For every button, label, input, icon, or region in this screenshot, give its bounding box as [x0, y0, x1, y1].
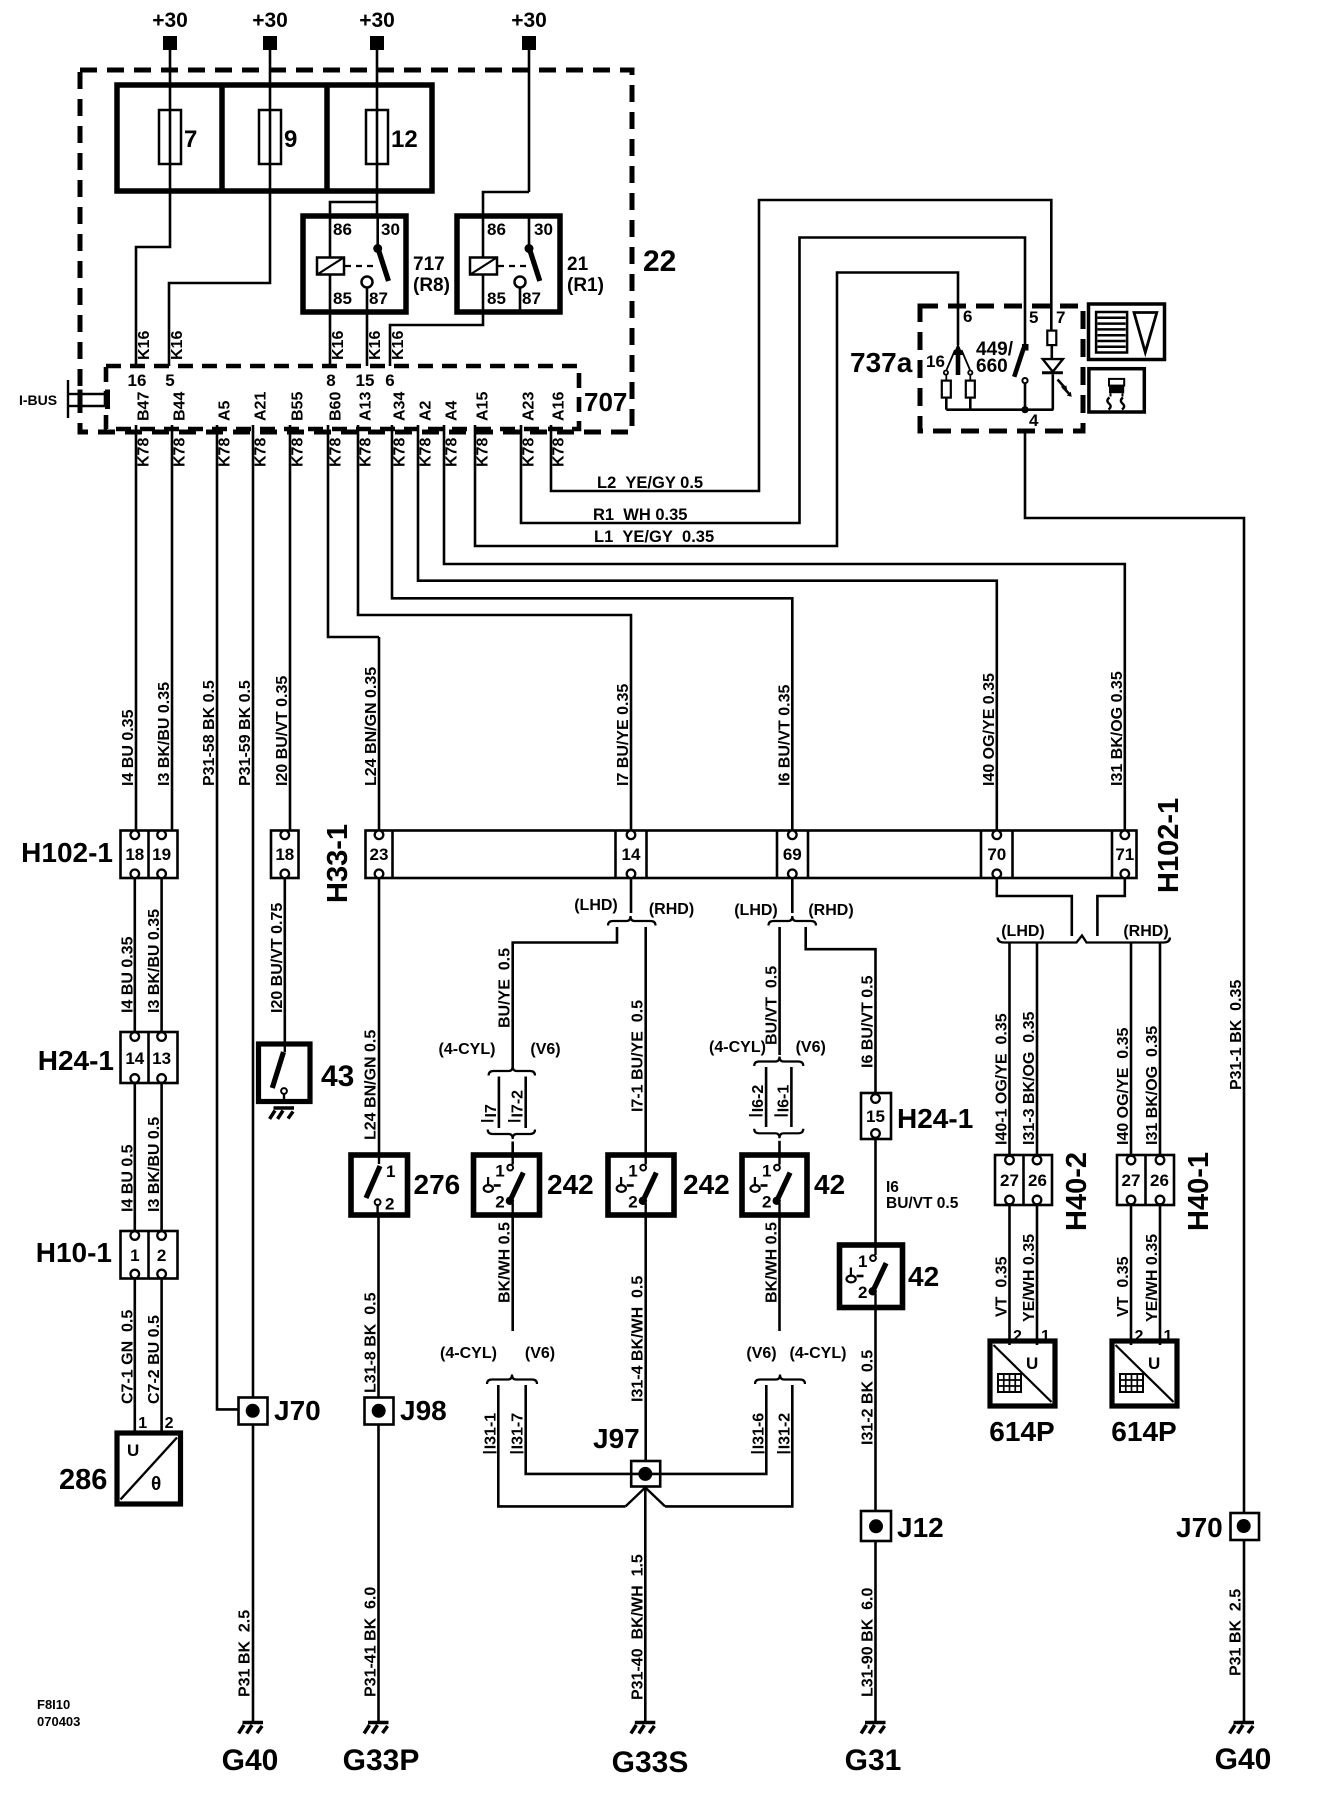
svg-text:85: 85: [487, 289, 506, 308]
wire right J70 to ground G40: [1243, 1540, 1246, 1721]
fuse 9: [259, 110, 281, 164]
svg-text:P31 BK 2.5: P31 BK 2.5: [237, 1610, 254, 1697]
svg-text:717: 717: [413, 254, 445, 275]
svg-text:1: 1: [495, 1162, 504, 1181]
svg-text:242: 242: [547, 1169, 594, 1200]
svg-text:K78: K78: [521, 438, 538, 467]
svg-text:YE/WH 0.35: YE/WH 0.35: [1144, 1234, 1161, 1322]
switch 242 no1 internals: [484, 1155, 524, 1215]
svg-text:I6 BU/VT 0.5: I6 BU/VT 0.5: [860, 975, 877, 1068]
svg-text:I31-4 BK/WH 0.5: I31-4 BK/WH 0.5: [629, 1276, 646, 1402]
svg-text:276: 276: [414, 1169, 461, 1200]
connector H10-1 pins 1/2 box: [121, 1231, 178, 1279]
wire A34 (I6) to connector pin 69: [392, 425, 792, 831]
ground G33P: [364, 1723, 388, 1734]
svg-text:+30: +30: [152, 9, 188, 32]
svg-text:B44: B44: [172, 392, 189, 421]
svg-text:21: 21: [567, 254, 589, 275]
svg-text:H102-1: H102-1: [1153, 798, 1185, 893]
svg-text:(R1): (R1): [567, 275, 604, 296]
svg-text:242: 242: [683, 1169, 730, 1200]
svg-text:K78: K78: [136, 438, 153, 467]
svg-text:2: 2: [385, 1195, 394, 1214]
relay 21 (R1) box: [457, 216, 560, 312]
wire H33-1 18 to switch 43: [283, 878, 286, 1044]
svg-text:K78: K78: [172, 438, 189, 467]
wire H10-1 1 to 286 pin 1: [134, 1279, 137, 1434]
svg-text:P31-40 BK/WH 1.5: P31-40 BK/WH 1.5: [629, 1554, 646, 1700]
svg-text:I6 BU/VT 0.35: I6 BU/VT 0.35: [776, 685, 793, 786]
switch 242 no1 box: [474, 1155, 540, 1215]
svg-text:K78: K78: [328, 438, 345, 467]
svg-text:I4 BU 0.35: I4 BU 0.35: [119, 936, 136, 1013]
svg-text:P31-58 BK 0.5: P31-58 BK 0.5: [201, 680, 218, 786]
svg-text:I6: I6: [886, 1179, 899, 1196]
switch 42 no2 box: [840, 1245, 903, 1308]
614P no2 grid icon: [1120, 1374, 1143, 1392]
737a resistor left: [945, 375, 947, 381]
wire H102-1 19 to H24-1 13: [160, 878, 163, 1032]
svg-text:I6-2: I6-2: [750, 1085, 767, 1113]
wire H40-2 27 to 614P: [1008, 1205, 1011, 1345]
svg-text:+30: +30: [511, 9, 547, 32]
svg-text:R1 WH 0.35: R1 WH 0.35: [593, 506, 687, 524]
svg-text:(4-CYL): (4-CYL): [709, 1039, 766, 1056]
svg-text:A21: A21: [253, 392, 270, 421]
wire +30 feed 3 to fuse 12: [376, 50, 379, 110]
brace split I31 right: [755, 1375, 805, 1385]
relay 717 pin 87 wire: [366, 288, 369, 367]
wire J12 to ground G31: [874, 1541, 877, 1721]
relay 21 contact 87 circle: [515, 277, 526, 288]
svg-text:BU/VT 0.5: BU/VT 0.5: [764, 966, 781, 1045]
switch 42 no2 internals: [847, 1246, 887, 1306]
wire A13 (I7) to connector pin 14: [358, 425, 631, 831]
svg-text:I31 BK/OG 0.35: I31 BK/OG 0.35: [1109, 671, 1126, 786]
switch 43 box: [259, 1044, 311, 1102]
relay 21 switch arm: [530, 250, 540, 281]
relay 717 pin 85 wire to 707 pin 8: [329, 312, 332, 366]
H40-1 pin circles: [1127, 1156, 1136, 1165]
svg-text:737a: 737a: [850, 347, 913, 378]
wire J97 to ground G33S: [644, 1488, 647, 1722]
brace merge I6: [754, 1129, 803, 1139]
svg-text:(RHD): (RHD): [808, 902, 853, 919]
svg-text:A15: A15: [475, 392, 492, 421]
737a resistor (pin 7): [1047, 331, 1056, 346]
svg-text:86: 86: [333, 220, 352, 239]
svg-text:L24 BN/GN 0.35: L24 BN/GN 0.35: [363, 667, 380, 786]
286 diagonal: [121, 1438, 178, 1500]
wire +30 feed 1 to fuse 7: [169, 50, 172, 110]
svg-text:2: 2: [495, 1193, 504, 1212]
737a selector contact right: [962, 350, 971, 370]
alt wire I31-7: [526, 1385, 632, 1474]
svg-text:5: 5: [1029, 308, 1038, 327]
relay 21 pin 30 wire and pivot: [528, 216, 531, 246]
svg-text:87: 87: [522, 289, 541, 308]
wire B47 to H102-1 pin 18: [135, 425, 138, 831]
svg-text:VT 0.35: VT 0.35: [994, 1256, 1011, 1317]
switch 242 no2 internals: [617, 1155, 657, 1215]
svg-text:C7-2 BU 0.5: C7-2 BU 0.5: [146, 1315, 163, 1404]
svg-text:6: 6: [963, 307, 972, 326]
fuse block outer box: [117, 85, 432, 191]
svg-text:85: 85: [333, 289, 352, 308]
svg-text:7: 7: [1056, 308, 1065, 327]
wire +30 feed 4 to relay 21 pin 30: [528, 50, 531, 192]
wire 42no1 down: [778, 1215, 781, 1331]
wire to H40-1 pin 27: [1130, 944, 1133, 1156]
svg-text:1: 1: [762, 1162, 771, 1181]
connector strip H102-1 (pins 23-71): [366, 831, 1137, 879]
connector H40-1 box: [1117, 1155, 1174, 1205]
alt wire I6-1: [790, 1067, 793, 1127]
svg-text:C7-1 GN 0.5: C7-1 GN 0.5: [119, 1310, 136, 1404]
svg-text:P31-1 BK 0.35: P31-1 BK 0.35: [1228, 980, 1245, 1090]
wire J70 to ground G40: [252, 1425, 255, 1721]
wire pin15 to switch 42 no2: [874, 1139, 877, 1245]
svg-text:I31-6: I31-6: [750, 1413, 767, 1450]
relay 717 coil wires: [329, 216, 332, 258]
svg-text:I3 BK/BU 0.35: I3 BK/BU 0.35: [146, 909, 163, 1013]
svg-text:J97: J97: [593, 1423, 640, 1454]
svg-text:(LHD): (LHD): [1001, 923, 1045, 940]
wire fuse 7 to 707 pin 16: [136, 191, 170, 366]
svg-text:13: 13: [152, 1049, 171, 1068]
svg-text:B60: B60: [328, 392, 345, 421]
wire A16 (L2) to 737a pin 7: [551, 200, 1051, 491]
svg-text:A2: A2: [418, 400, 435, 421]
svg-text:U: U: [1148, 1354, 1160, 1373]
svg-text:I3 BK/BU 0.5: I3 BK/BU 0.5: [146, 1117, 163, 1212]
wire A21 (P31-59) to J70: [252, 425, 255, 1398]
wire A15 (L1) to 737a pin 6: [475, 273, 958, 547]
wire H102-1 18 to H24-1 14: [134, 878, 137, 1032]
svg-text:I40-1 OG/YE 0.35: I40-1 OG/YE 0.35: [994, 1013, 1011, 1145]
svg-text:I31-7: I31-7: [510, 1413, 527, 1450]
svg-text:I3 BK/BU 0.35: I3 BK/BU 0.35: [156, 682, 173, 786]
svg-text:J70: J70: [1176, 1512, 1223, 1543]
wire H24-1 14 to H10-1 1: [134, 1083, 137, 1231]
svg-text:(RHD): (RHD): [649, 901, 694, 918]
737a selector contact left: [947, 350, 956, 370]
wire A2 (I40) to connector pin 70: [418, 425, 997, 831]
svg-text:27: 27: [1000, 1171, 1019, 1190]
svg-text:K78: K78: [392, 438, 409, 467]
fuse block divider 1: [219, 85, 225, 191]
wire H40-2 26 to 614P: [1036, 1205, 1039, 1345]
wire H10-1 2 to 286 pin 2: [160, 1279, 163, 1434]
svg-text:K16: K16: [136, 331, 153, 360]
svg-text:I31-3 BK/OG 0.35: I31-3 BK/OG 0.35: [1021, 1012, 1038, 1145]
wire pin 70 down: [997, 878, 1072, 936]
connector H40-2 box: [995, 1155, 1052, 1205]
wire J98 to ground G33P: [377, 1425, 380, 1721]
svg-text:(V6): (V6): [530, 1041, 560, 1058]
svg-text:I4 BU 0.5: I4 BU 0.5: [119, 1144, 136, 1212]
svg-text:H10-1: H10-1: [36, 1237, 112, 1268]
switch 276 internals: [378, 1155, 380, 1164]
ground G40 right: [1230, 1723, 1254, 1734]
relay 21 coil wires: [482, 216, 485, 258]
svg-text:14: 14: [622, 845, 641, 864]
svg-text:K78: K78: [253, 438, 270, 467]
svg-text:2: 2: [858, 1283, 867, 1302]
svg-text:H40-2: H40-2: [1061, 1152, 1093, 1231]
svg-text:L31-90 BK 6.0: L31-90 BK 6.0: [860, 1588, 877, 1697]
svg-text:1: 1: [628, 1162, 637, 1181]
svg-text:707: 707: [584, 387, 627, 417]
fuse 7: [159, 110, 181, 164]
svg-text:K78: K78: [290, 438, 307, 467]
dashed box 707 (main instrument unit): [106, 366, 579, 429]
brace split I31 left: [487, 1375, 537, 1385]
svg-text:G33S: G33S: [612, 1746, 689, 1779]
wire A23 (R1) to 737a pin 5: [521, 238, 1025, 524]
svg-text:+30: +30: [252, 9, 288, 32]
svg-text:86: 86: [487, 220, 506, 239]
614P no1 grid icon: [998, 1374, 1021, 1392]
svg-text:1: 1: [386, 1162, 395, 1181]
wire B44 to H102-1 pin 19: [171, 425, 174, 831]
svg-text:8: 8: [326, 371, 335, 390]
blower grill icon: [1096, 312, 1127, 353]
svg-text:VT 0.35: VT 0.35: [1115, 1256, 1132, 1317]
svg-text:U: U: [127, 1441, 139, 1460]
svg-text:I7: I7: [483, 1104, 500, 1117]
blower triangle icon: [1134, 313, 1157, 353]
svg-text:1: 1: [858, 1252, 867, 1271]
fuse block divider 2: [324, 85, 330, 191]
svg-text:K16: K16: [367, 331, 384, 360]
svg-text:I40 OG/YE 0.35: I40 OG/YE 0.35: [981, 673, 998, 786]
svg-text:BU/YE 0.5: BU/YE 0.5: [497, 948, 514, 1028]
relay 21 pin 85 wire to 707 pin 6: [390, 312, 483, 366]
svg-text:30: 30: [534, 220, 553, 239]
svg-text:H102-1: H102-1: [21, 837, 113, 868]
H24-1 pin 15 circles: [871, 1094, 880, 1103]
svg-text:K16: K16: [390, 331, 407, 360]
614P no1 diagonal: [994, 1345, 1052, 1402]
junction J70 right: [1231, 1513, 1260, 1540]
svg-text:(4-CYL): (4-CYL): [439, 1041, 496, 1058]
wire pin14 LHD branch: [513, 927, 617, 1069]
relay 717 switch arm: [379, 250, 389, 281]
alt wire I7-2: [524, 1077, 527, 1129]
svg-text:A4: A4: [444, 400, 461, 421]
relay 21 dashed link: [498, 265, 527, 267]
svg-text:I31 BK/OG 0.35: I31 BK/OG 0.35: [1144, 1026, 1161, 1145]
svg-text:I20 BU/VT 0.75: I20 BU/VT 0.75: [269, 903, 286, 1013]
component 286 (seat temp sensor) box: [117, 1433, 181, 1504]
svg-text:G40: G40: [1215, 1743, 1272, 1776]
H40-2 pin circles: [1005, 1156, 1014, 1165]
svg-text:7: 7: [184, 126, 197, 153]
svg-text:16: 16: [926, 352, 945, 371]
svg-text:614P: 614P: [989, 1416, 1054, 1447]
wire brace to switch 242 no1: [511, 1142, 514, 1156]
relay 21 coil: [470, 258, 497, 275]
wire +30 feed 2 to fuse 9: [269, 50, 272, 110]
svg-text:30: 30: [381, 220, 400, 239]
svg-text:71: 71: [1115, 845, 1134, 864]
svg-text:(R8): (R8): [413, 275, 450, 296]
svg-text:BK/WH 0.5: BK/WH 0.5: [764, 1222, 781, 1303]
wire to H40-2 pin 27: [1008, 944, 1011, 1156]
svg-text:I-BUS: I-BUS: [19, 392, 57, 408]
svg-text:K78: K78: [551, 438, 568, 467]
svg-text:22: 22: [643, 245, 676, 278]
J97 V crossover: [626, 1488, 646, 1507]
svg-text:K78: K78: [217, 438, 234, 467]
svg-text:18: 18: [275, 845, 294, 864]
wire L24 to connector pin 23: [378, 637, 381, 831]
brace split I6: [754, 1057, 803, 1067]
svg-text:I31-2: I31-2: [776, 1413, 793, 1450]
svg-text:K78: K78: [475, 438, 492, 467]
wire to H40-1 pin 26: [1159, 944, 1162, 1156]
svg-text:I7 BU/YE 0.35: I7 BU/YE 0.35: [615, 684, 632, 786]
svg-text:87: 87: [369, 289, 388, 308]
svg-text:F8I10: F8I10: [37, 1697, 70, 1712]
connector H24-1 pins 14/13 box: [121, 1032, 178, 1083]
svg-text:J12: J12: [897, 1512, 944, 1543]
svg-text:P31-41 BK 6.0: P31-41 BK 6.0: [363, 1587, 380, 1697]
wire +30 jog to relay 21 pin 86: [483, 192, 529, 216]
relay 717 dashed link: [345, 265, 374, 267]
svg-text:(LHD): (LHD): [574, 897, 618, 914]
svg-text:I40 OG/YE 0.35: I40 OG/YE 0.35: [1115, 1028, 1132, 1146]
svg-text:J70: J70: [274, 1395, 321, 1426]
wire through fuse 12: [376, 110, 379, 191]
svg-text:P31-59 BK 0.5: P31-59 BK 0.5: [237, 680, 254, 786]
svg-text:BK/WH 0.5: BK/WH 0.5: [497, 1222, 514, 1303]
wire 242no2 to J97: [644, 1215, 647, 1461]
svg-text:1: 1: [138, 1415, 147, 1432]
ground G40 left: [239, 1723, 263, 1734]
svg-text:A16: A16: [551, 392, 568, 421]
junction J97: [631, 1461, 660, 1487]
svg-text:B47: B47: [136, 392, 153, 421]
svg-text:42: 42: [814, 1169, 845, 1200]
switch 242 no2 box: [608, 1155, 674, 1215]
H10-1 pin circles: [131, 1231, 140, 1240]
alt wire I6-2: [765, 1067, 768, 1127]
svg-text:K16: K16: [169, 331, 186, 360]
relay 717 coil: [317, 258, 344, 275]
svg-text:H33-1: H33-1: [322, 824, 354, 903]
junction J70: [239, 1398, 268, 1425]
wire pin14 RHD branch: [644, 927, 647, 1155]
svg-text:I4 BU 0.35: I4 BU 0.35: [120, 709, 137, 786]
wire pin 23 to switch 276: [378, 878, 381, 1155]
alt wire I31-2b: [665, 1385, 792, 1506]
737a pin 4 wire to right J70: [1025, 431, 1244, 1513]
svg-text:70: 70: [987, 845, 1006, 864]
icon box blower/vent: [1089, 304, 1165, 360]
H102-1 pin circles: [131, 831, 140, 840]
junction J12: [861, 1511, 891, 1541]
svg-text:A5: A5: [217, 400, 234, 421]
svg-text:L31-8 BK 0.5: L31-8 BK 0.5: [363, 1292, 380, 1393]
svg-text:A13: A13: [358, 392, 375, 421]
svg-text:θ: θ: [151, 1474, 161, 1495]
dashed box 22 (fuse/relay centre): [80, 70, 632, 432]
ground below switch 43: [270, 1108, 294, 1119]
fuse 12: [366, 110, 388, 164]
brace under pin 69: [769, 916, 817, 926]
switch 42 no1 box: [742, 1155, 807, 1215]
relay 717 pin 30 wire and pivot: [376, 216, 379, 246]
wire fuse 12 to relay 717 pins 30/86: [330, 202, 377, 216]
svg-text:(V6): (V6): [525, 1345, 555, 1362]
svg-text:(LHD): (LHD): [734, 902, 778, 919]
wire through fuse 7: [169, 110, 172, 191]
wire H24-1 13 to H10-1 2: [160, 1083, 163, 1231]
svg-text:H24-1: H24-1: [897, 1103, 973, 1134]
svg-text:H40-1: H40-1: [1183, 1152, 1215, 1231]
wire 276 to J98: [377, 1215, 380, 1398]
alt wire I7: [498, 1077, 501, 1129]
svg-text:1: 1: [130, 1246, 139, 1265]
svg-text:I31-2 BK 0.5: I31-2 BK 0.5: [860, 1350, 877, 1445]
alt wire I31-6: [660, 1385, 766, 1474]
svg-text:J98: J98: [400, 1395, 447, 1426]
brace split I7: [489, 1066, 535, 1076]
svg-text:(RHD): (RHD): [1123, 923, 1168, 940]
svg-text:4: 4: [1029, 411, 1039, 430]
svg-text:BU/VT 0.5: BU/VT 0.5: [886, 1195, 959, 1212]
svg-text:18: 18: [125, 845, 144, 864]
svg-text:L1 YE/GY 0.35: L1 YE/GY 0.35: [594, 528, 714, 546]
svg-text:286: 286: [59, 1464, 107, 1496]
wire H40-1 26 to 614P: [1159, 1205, 1162, 1345]
long bracket under pins 70/71: [998, 936, 1170, 943]
svg-text:12: 12: [391, 126, 418, 153]
wire pin 71 down: [1097, 878, 1124, 936]
svg-text:5: 5: [165, 371, 174, 390]
svg-text:14: 14: [125, 1049, 144, 1068]
svg-text:16: 16: [128, 371, 147, 390]
wire B60 joins L24: [328, 425, 379, 637]
wire pin 69 down to brace: [791, 878, 794, 913]
alt wire I31-1: [498, 1385, 625, 1506]
svg-text:H24-1: H24-1: [38, 1045, 114, 1076]
ground G33S: [631, 1723, 655, 1734]
wire A4 (I31) to connector pin 71: [444, 425, 1125, 831]
svg-text:K78: K78: [418, 438, 435, 467]
wire pin69 RHD branch: [806, 927, 876, 1093]
svg-text:69: 69: [783, 845, 802, 864]
svg-text:27: 27: [1122, 1171, 1141, 1190]
dashed box 737a (light switch): [920, 306, 1083, 431]
737a LED arrows: [1058, 380, 1070, 394]
svg-text:U: U: [1026, 1354, 1038, 1373]
svg-text:19: 19: [152, 845, 171, 864]
connector H24-1 pin 15 box: [861, 1093, 891, 1139]
svg-text:K78: K78: [444, 438, 461, 467]
svg-text:L24 BN/GN 0.5: L24 BN/GN 0.5: [363, 1030, 380, 1140]
svg-text:+30: +30: [359, 9, 395, 32]
component 614P no1 box: [990, 1341, 1055, 1406]
H24-1 pin circles: [131, 1032, 140, 1041]
svg-text:614P: 614P: [1111, 1416, 1176, 1447]
svg-text:2: 2: [628, 1193, 637, 1212]
svg-text:660: 660: [976, 356, 1008, 377]
icon box seat heater: [1089, 369, 1144, 412]
svg-text:23: 23: [370, 845, 389, 864]
